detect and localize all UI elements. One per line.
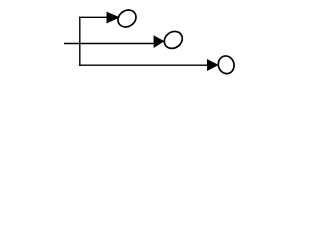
arrowhead: middle branch [154, 35, 165, 48]
wire: top branch horizontal [79, 16, 108, 18]
wire: input horizontal line to middle branch [64, 43, 155, 45]
wire: vertical branch line [79, 17, 81, 66]
node ellipse: top [115, 7, 140, 31]
node ellipse: bottom [216, 54, 236, 75]
wire: bottom branch horizontal [79, 64, 208, 66]
node ellipse: middle [161, 28, 186, 52]
arrowhead: bottom branch [207, 59, 219, 71]
arrowhead: top branch [107, 12, 120, 24]
